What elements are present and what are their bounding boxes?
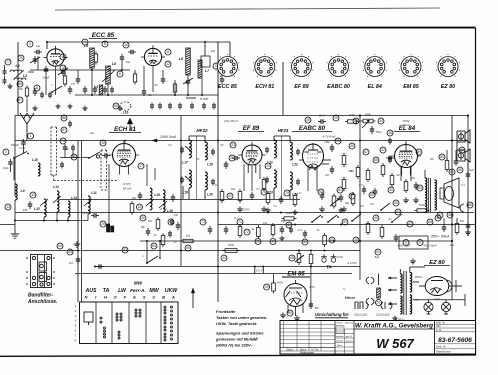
title block outer box [280,321,476,355]
svg-text:100k: 100k [349,113,356,117]
annotation 0.57V 36mA [123,182,132,191]
switch S5b [327,215,339,223]
ground fill c [338,208,343,213]
resistor R70 EM85 grid [272,281,276,294]
wire ECH81 anode to rail [124,140,126,143]
label socket EABC 80 [327,84,350,90]
svg-text:6 mA: 6 mA [200,97,207,101]
value labels fill [273,192,364,208]
svg-text:160: 160 [231,188,236,191]
svg-text:W 567: W 567 [376,336,414,351]
tuning gang section 2 dashed box [101,150,107,190]
tube socket EL 84 (top view) [363,54,387,77]
circled ref 82 [369,192,375,198]
svg-text:EL 84: EL 84 [368,84,382,90]
svg-text:L17: L17 [182,161,188,165]
capacitor C60 EL84 grid [386,156,394,161]
resistor R30 [342,153,346,167]
svg-text:44: 44 [222,256,226,260]
svg-text:20: 20 [141,216,145,220]
page edge scan line top [55,8,440,10]
svg-text:6: 6 [62,55,64,59]
capacitor C30 ECH81 grid [102,153,110,158]
svg-text:L9: L9 [20,189,24,193]
wire top rail mid [283,115,360,117]
svg-text:50kΩ: 50kΩ [286,211,292,215]
capacitor C28 below [40,92,52,99]
svg-text:A: A [171,295,175,300]
svg-text:HF23: HF23 [278,128,289,133]
circled ref 79 [284,190,290,196]
circled ref 5 [102,41,108,47]
resistor R55 volume pot [295,251,304,265]
circled ref 39 [255,239,261,245]
switch S4 tone [380,203,390,211]
circled ref 12 [165,61,171,67]
coil L8 osc [84,44,94,68]
capacitor C97 [224,226,229,234]
svg-text:42: 42 [303,240,307,244]
ground fill a [265,208,270,213]
resistor R20 EF89 cathode [238,189,242,203]
svg-text:C: C [152,295,155,300]
svg-text:Ferr-A.: Ferr-A. [130,288,146,294]
wire drops from FM top bus [47,42,230,62]
resistor R53 [323,233,327,247]
svg-text:26: 26 [350,144,354,148]
tube V4 EABC80 [303,143,324,170]
svg-text:Gestr. Nr.: Gestr. Nr. [436,346,447,349]
switch bank box [80,302,179,344]
svg-text:220/240V: 220/240V [375,313,391,317]
wire stub EM85 top [255,267,263,274]
label Hoerer [342,287,355,300]
svg-text:TA: TA [326,265,332,270]
svg-text:85: 85 [169,220,173,224]
circled ref 19 [100,221,106,227]
wire vertical bus x468 [467,116,469,237]
annotation minus 8.5V [159,207,167,211]
IF T1 capacitors [180,147,215,186]
circled ref 53 [67,249,73,255]
ground FM box bottom 2 [117,106,122,111]
wire AM coil bottoms [15,212,88,221]
resistor R40 grid leak [390,173,394,187]
svg-text:L11: L11 [91,191,97,195]
IF T2 coil L24 [290,172,298,197]
svg-text:11: 11 [166,50,170,54]
circled ref 1 [28,133,34,139]
svg-text:18: 18 [138,205,142,209]
label ECH 81 stage [109,126,141,133]
wire FM lower bus [75,94,218,96]
label socket EM 85 [403,84,420,90]
svg-text:60: 60 [440,155,444,159]
svg-text:67: 67 [364,150,368,154]
ground speaker line [465,229,471,235]
svg-text:(600Ω /V) bei 220V~: (600Ω /V) bei 220V~ [216,343,254,348]
svg-text:57: 57 [18,98,22,102]
speaker tweeter 2 [457,149,470,162]
ground FM left [32,106,37,111]
capacitor C101 [339,194,344,202]
capacitor C34 [132,192,142,200]
circled ref 11 [165,49,171,55]
svg-text:Anschlüsse.: Anschlüsse. [27,299,57,305]
svg-text:750p: 750p [376,130,382,134]
circled ref 49 [264,284,270,290]
switch bank label MW above [134,281,143,286]
wire vertical bus x452 [451,116,453,301]
tube socket EF 89 (top view) [290,54,314,77]
svg-text:14: 14 [6,205,10,209]
circled ref 15 [30,192,36,198]
circled ref 26 [349,143,355,149]
svg-text:87: 87 [62,128,66,132]
svg-text:55: 55 [186,246,190,250]
resistor R60 [366,221,370,235]
capacitor C9 [83,86,88,94]
svg-text:Geprüft durch: Geprüft durch [436,351,451,354]
circled ref 23 [230,142,236,148]
capacitor C57 [388,157,392,164]
coil L14 [68,196,77,217]
resistor R11 osc [156,217,160,231]
title block right column [435,321,476,355]
wire AF rail [0,250,360,252]
circled ref 10 [123,42,129,48]
svg-text:ECH 81: ECH 81 [255,84,274,90]
svg-text:54: 54 [58,244,62,248]
IF T2 core line [281,136,283,200]
phono jack TA left [321,254,327,262]
circled ref 68 [373,157,379,163]
wire FM box bottom rail [15,115,283,117]
resistor R3 [94,52,97,65]
wire V1b anode drop [204,42,206,56]
capacitor C73 [394,234,399,242]
coil L4b [94,85,103,95]
capacitors bottom row FM box [150,103,216,110]
label 295V 6mA on rail [152,135,177,142]
ground EABC a [319,206,325,212]
svg-text:HF22: HF22 [196,128,208,133]
resistor R10 ECH81 cathode [130,201,134,215]
wire grid feed ECH81 [60,157,89,159]
coil L8b IF out [179,48,190,75]
svg-text:29: 29 [334,116,338,120]
resistor R14 osc section [161,233,165,247]
electrolytic block C74 C75 50+50uF [399,236,428,249]
svg-text:265V~: 265V~ [414,275,424,279]
svg-text:51: 51 [377,301,381,305]
resistor R80 ratio det load [445,158,449,172]
svg-text:35: 35 [388,131,392,135]
trimmer C15 [183,78,193,86]
svg-text:a 115V: a 115V [347,261,357,265]
connector bracket pair 2 [366,298,374,305]
svg-text:125p: 125p [324,141,330,144]
circled ref 60 [439,154,445,160]
svg-text:36: 36 [458,168,462,172]
svg-text:82: 82 [370,193,374,197]
junction dots AM coils [14,220,69,222]
svg-text:32: 32 [381,148,385,152]
svg-text:450V 50µF: 450V 50µF [423,244,437,248]
ground ECH81 area [74,241,80,247]
svg-text:50n: 50n [315,307,320,310]
capacitor C29 left col [60,121,72,169]
power transformer T3 winding secondary upper [410,273,412,293]
circled ref 77 [5,59,11,65]
circled ref 63 [417,185,423,191]
svg-text:5960: 5960 [365,113,372,117]
coil L7 [198,60,210,78]
svg-text:EM 85: EM 85 [403,84,420,90]
wire FM box left vertical [17,42,19,115]
svg-text:4: 4 [84,40,86,44]
resistor R81 [455,221,459,235]
tube socket ECC 85 (top view) [216,54,240,77]
label EL 84 stage [394,125,420,132]
resistor R43 1500 [415,203,430,212]
ground T3 [392,316,397,321]
ground FM ant cluster [7,84,12,89]
junction dots lower area [254,250,312,268]
circled ref 7 [60,65,66,71]
svg-text:71: 71 [238,220,242,224]
circled ref 16 [100,140,106,146]
junction dots mid fill [267,212,342,252]
power transformer T3 winding primary upper [400,274,402,293]
capacitor C98 mid [289,227,293,234]
label EM 85 stage [282,272,310,278]
capacitor C35 [171,194,176,202]
connector bracket pair 1 [366,277,374,284]
circled ref 44 [221,255,227,261]
capacitor C20 AM [23,201,33,212]
mains voltage selector contacts [355,302,392,309]
ground C70 [279,236,284,241]
electrolytic C33 black [111,226,114,232]
capacitor C56 [373,188,378,196]
tube V1b ECC85 triode B [141,45,165,65]
resistor R56 [309,252,313,266]
svg-text:2nF: 2nF [211,50,216,53]
svg-text:68: 68 [374,158,378,162]
circled ref 13 [213,63,219,69]
svg-text:84: 84 [152,244,156,248]
capacitor C11 [103,86,108,94]
coil L10 input [32,158,40,176]
svg-text:L16: L16 [123,111,129,115]
capacitor C100 [279,196,284,204]
svg-text:AUS: AUS [85,288,97,294]
capacitor C41 [250,192,255,200]
capacitor C81 top left of T3 [375,249,381,259]
circled ref 22 [227,193,233,199]
label EZ 80 stage [424,260,450,266]
svg-text:2: 2 [5,150,7,154]
svg-text:59: 59 [417,150,421,154]
svg-text:39: 39 [256,240,260,244]
svg-text:0,1: 0,1 [234,217,238,220]
IF T2 coil L21 [267,140,276,165]
trimmer circle ECH81 grid [96,155,99,158]
svg-text:1nF: 1nF [325,174,330,177]
coil L16 osc [163,190,173,213]
title block revision table [280,321,335,355]
capacitor C6 [76,76,81,84]
capacitor C61 cathode [414,182,419,190]
wire rail 241 [140,240,452,242]
capacitor C16 [161,76,166,84]
svg-text:22nF: 22nF [319,114,326,118]
circled ref 9 [117,71,123,77]
svg-text:Norm: Norm [337,345,342,347]
svg-text:13p: 13p [90,132,95,135]
svg-text:8µF: 8µF [375,255,380,259]
label 3k5 [256,269,263,273]
tube V1a ECC85 triode A [43,46,67,66]
wire stubs EF89 legs [244,164,260,191]
svg-text:L18: L18 [207,163,213,167]
tube V3 EF89 [239,142,266,173]
resistor R86 [293,193,297,207]
resistor R42 5960 [361,113,376,123]
switch S6 [391,214,402,223]
svg-text:33: 33 [354,119,358,123]
svg-text:72: 72 [245,230,249,234]
svg-text:135: 135 [411,177,416,180]
svg-text:81: 81 [338,188,342,192]
circled ref 76 [18,55,24,61]
circled ref 86 [61,115,67,121]
electrolytic C32 black [107,224,110,232]
value labels right band [389,158,466,247]
tube V7 EZ80 [419,277,456,296]
label EABC 80 stage [292,125,332,132]
IF T1 coil L20 [205,172,213,197]
circled ref 38 [447,212,453,218]
svg-text:30: 30 [394,201,398,205]
ground EM85 b [294,315,300,321]
connector Bandfilter block [26,255,55,288]
svg-text:36mA: 36mA [402,123,410,127]
svg-text:H: H [104,295,107,300]
svg-text:0,1: 0,1 [256,188,260,191]
label EF 89 stage [238,125,264,132]
IF T2 coil L22 [290,142,298,167]
svg-text:49: 49 [265,285,269,289]
wire stubs EABC legs [308,167,317,191]
svg-text:~: ~ [342,287,345,293]
svg-text:50: 50 [288,311,292,315]
svg-text:265V~ 80mA: 265V~ 80mA [430,235,450,239]
wire T3 tops [400,267,425,274]
label Umschaltung fuer [315,312,391,318]
capacitor C70 [280,226,285,234]
annotation EF89 top [224,119,238,123]
speaker main cone [440,178,459,208]
svg-text:5µF: 5µF [469,168,474,172]
value labels EL84 [396,174,415,180]
svg-text:38: 38 [448,213,452,217]
circled ref 57 [17,97,23,103]
ground main AM [11,230,19,238]
circled ref 61 [449,169,455,175]
resistor R61 [380,225,384,239]
annotation EL84 top [401,119,410,127]
svg-text:36 mA: 36 mA [123,187,132,191]
title block maker name box [354,322,435,329]
wire IF T2 bottom [274,188,290,199]
svg-text:MW: MW [134,281,143,286]
svg-text:170: 170 [71,83,76,86]
capacitor C64 [460,219,470,230]
circled ref 45 [289,255,295,261]
svg-text:46: 46 [374,216,378,220]
svg-text:4,7n: 4,7n [298,229,303,232]
svg-text:53: 53 [68,250,72,254]
circled ref 65 [467,202,473,208]
svg-text:Datum: Datum [286,348,293,351]
value labels EF89 [231,188,260,191]
wire L9 down [14,200,16,221]
ground EF89 a [237,206,243,212]
label IF transformer HF22 [196,128,208,133]
resistor R85 [266,191,270,205]
svg-text:250: 250 [23,208,28,212]
resistor R75 1k5 [181,234,196,243]
svg-text:15: 15 [31,193,35,197]
svg-text:N: N [85,295,88,300]
wire B+ rail 295V [15,140,468,142]
circled ref 3 [27,41,33,47]
svg-text:Jahr: Jahr [436,325,441,328]
circled ref 70 [353,237,359,243]
capacitor C10 [93,86,98,94]
svg-text:1: 1 [30,134,32,138]
ground fill b [292,210,297,215]
circled ref 32 [380,147,386,153]
annotation a115V [347,261,357,265]
svg-text:Geprüft: Geprüft [336,340,343,343]
svg-text:L12: L12 [34,207,40,211]
tuning gang section 1 dashed box [51,127,57,175]
svg-text:50: 50 [148,93,152,97]
svg-text:gez. B.: gez. B. [346,336,353,338]
wire right band stubs [444,150,457,224]
svg-text:0,5M: 0,5M [337,256,343,259]
output transformer T2 core [429,178,431,212]
coil L9 antenna AM [15,184,25,200]
capacitor C27 FM ant [3,78,7,85]
svg-text:3: 3 [29,42,31,46]
output transformer T2 winding left [425,178,427,212]
capacitor C63 tweeter [466,168,474,179]
svg-text:L22: L22 [292,163,298,167]
capacitor C8 [120,54,125,62]
wire FM ant cluster [5,62,35,78]
note Frontseite [216,309,267,326]
wire stub EL84 leg [401,166,411,181]
svg-text:52: 52 [376,250,380,254]
svg-text:22n: 22n [430,158,435,161]
IF T1 core line [196,136,198,200]
label 6mA with arrow [186,97,208,101]
svg-text:63: 63 [418,186,422,190]
